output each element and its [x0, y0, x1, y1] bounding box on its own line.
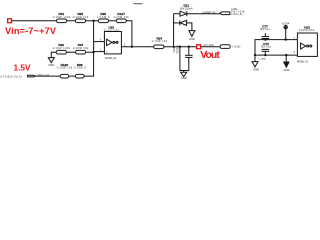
- svg-text:1/16W 10k: 1/16W 10k: [57, 68, 73, 70]
- svg-text:50V 0.1u: 50V 0.1u: [261, 45, 271, 48]
- wire V-: [255, 54, 297, 56]
- capacitor C84: [188, 46, 190, 48]
- capacitor C70: [264, 54, 266, 56]
- svg-text:Vout: Vout: [200, 50, 220, 61]
- resistor R61: [57, 19, 67, 23]
- svg-text:1/16W 10k: 1/16W 10k: [113, 17, 129, 19]
- svg-text:R61: R61: [59, 12, 65, 16]
- svg-text:AD,RSI: AD,RSI: [204, 44, 215, 47]
- power +12VA: [284, 26, 287, 29]
- wire: [69, 75, 76, 77]
- svg-text:+12VA: +12VA: [282, 22, 290, 26]
- diode D21b: [174, 22, 180, 24]
- svg-text:MXML-01: MXML-01: [105, 56, 117, 60]
- svg-text:-12VA: -12VA: [283, 68, 290, 72]
- op-amp U23 triangle: [107, 39, 112, 45]
- svg-text:1/16W 0: 1/16W 0: [97, 17, 110, 19]
- svg-text:50V 0.1u: 50V 0.1u: [260, 28, 270, 31]
- svg-text:MXML-01: MXML-01: [297, 59, 309, 63]
- node junction feedback: [131, 46, 133, 48]
- wire: [66, 20, 75, 22]
- svg-text:C84: C84: [172, 48, 176, 53]
- ground R62: [48, 58, 54, 63]
- svg-text:R62: R62: [58, 43, 64, 47]
- ground right: [252, 62, 258, 67]
- svg-text:1.5V: 1.5V: [14, 64, 32, 73]
- svg-text:1/16W 100k: 1/16W 100k: [53, 17, 71, 19]
- ground C84: [181, 72, 187, 76]
- capacitor C77: [264, 38, 266, 40]
- svg-text:80V 125mA: 80V 125mA: [180, 7, 193, 10]
- off-page connector UVREF: [220, 12, 230, 15]
- wire: [187, 13, 222, 15]
- node junction A: [92, 20, 94, 22]
- svg-text:R128: R128: [61, 63, 69, 67]
- svg-text:3+8,3+,8+,: 3+8,3+,8+,: [231, 14, 244, 16]
- svg-text:GND: GND: [48, 63, 54, 67]
- svg-text:Vin=-7~+7V: Vin=-7~+7V: [5, 26, 57, 36]
- diode D21a: [174, 13, 180, 15]
- port Vin: [8, 19, 12, 23]
- svg-text:UVREF 3V: UVREF 3V: [202, 10, 216, 14]
- svg-text:R127: R127: [117, 12, 125, 16]
- resistor R97: [76, 50, 86, 54]
- resistor R24: [154, 45, 164, 49]
- svg-text:R24: R24: [156, 36, 162, 40]
- power -12VA: [285, 54, 287, 56]
- resistor R95: [75, 19, 85, 23]
- wire cap branch 1: [179, 46, 181, 48]
- wire D21 branch: [173, 14, 175, 47]
- resistor R127: [116, 19, 126, 23]
- wire: [201, 46, 220, 48]
- wire: [84, 75, 94, 77]
- wire vertical input node: [93, 21, 95, 76]
- wire: [187, 23, 192, 31]
- port Vout: [197, 45, 201, 49]
- op-amp U23R glyph: [307, 45, 309, 47]
- wire: [163, 46, 196, 48]
- svg-text:1/16W 10k: 1/16W 10k: [73, 48, 89, 50]
- dash artifact: [134, 3, 143, 4]
- svg-text:1/16W 0: 1/16W 0: [73, 68, 86, 70]
- resistor R96: [98, 19, 108, 23]
- wire feedback: [126, 21, 132, 47]
- resistor R98: [76, 74, 85, 78]
- svg-text:1/16W 10k: 1/16W 10k: [73, 17, 89, 19]
- wire: [108, 20, 116, 22]
- svg-text:R97: R97: [78, 43, 84, 47]
- resistor R62: [56, 50, 66, 54]
- svg-text:UREF_7V5: UREF_7V5: [37, 74, 50, 77]
- op-amp U23 box: [104, 32, 121, 54]
- node junction R97: [92, 51, 94, 53]
- svg-text:R98: R98: [77, 63, 83, 67]
- svg-text:TL061CPS: TL061CPS: [104, 29, 120, 32]
- node junction D21 branch: [173, 46, 175, 48]
- resistor R output: [220, 45, 230, 49]
- op-amp U23 power box: [297, 33, 317, 56]
- op-amp U23R triangle: [301, 43, 306, 49]
- svg-text:C-5MM: C-5MM: [258, 58, 265, 60]
- svg-text:1/16W 100: 1/16W 100: [152, 41, 168, 43]
- svg-text:0.022u: 0.022u: [176, 45, 180, 54]
- off-page connector UREF_7V5: [28, 75, 35, 77]
- wire: [85, 20, 98, 22]
- svg-text:(+7,3+E,3+-3+(,3+: (+7,3+E,3+-3+(,3+: [0, 76, 22, 78]
- ground D21: [189, 31, 195, 37]
- wire: [86, 51, 94, 53]
- wire stub op-amp input lower: [94, 51, 105, 53]
- svg-text:TL061CPS: TL061CPS: [299, 29, 315, 32]
- wire bottom: [35, 75, 60, 77]
- svg-text:(+8,8): (+8,8): [232, 46, 240, 49]
- op-amp U23 glyph: [113, 41, 115, 43]
- svg-text:R95: R95: [77, 12, 83, 16]
- svg-text:GND: GND: [189, 37, 195, 41]
- wire: [51, 52, 56, 57]
- wire output: [121, 46, 153, 48]
- svg-text:GND: GND: [253, 67, 259, 71]
- svg-text:R96: R96: [100, 12, 106, 16]
- right section wire V+: [255, 40, 297, 62]
- svg-text:1/16W 100k: 1/16W 100k: [52, 48, 70, 50]
- resistor R128: [60, 74, 69, 78]
- wire: [12, 20, 57, 22]
- svg-text:GND: GND: [181, 76, 187, 80]
- wire stub op-amp input upper: [94, 41, 105, 43]
- wire: [66, 51, 75, 53]
